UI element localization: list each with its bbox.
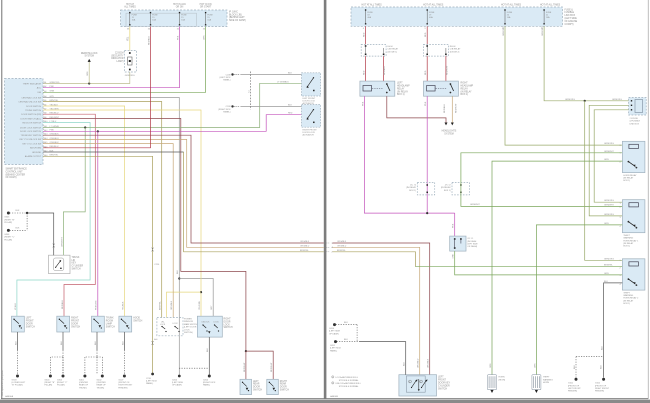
fuse F2: [150, 12, 151, 13]
svg-text:RH HI: RH HI: [450, 46, 456, 48]
svg-text:IGN: IGN: [37, 92, 41, 94]
svg-text:DOOR: DOOR: [280, 387, 287, 389]
svg-text:THEFT: THEFT: [543, 377, 550, 379]
svg-text:PANEL): PANEL): [330, 349, 338, 352]
svg-text:C/B RELAY: C/B RELAY: [388, 48, 399, 51]
fuse F2-1: [365, 9, 366, 10]
svg-text:LT GRN/BLK: LT GRN/BLK: [277, 81, 289, 83]
svg-text:GRN: GRN: [87, 71, 89, 76]
svg-text:BLK: BLK: [601, 364, 603, 369]
svg-text:OF ENGINE: OF ENGINE: [565, 21, 578, 23]
svg-text:LOCK: LOCK: [160, 324, 166, 326]
node junction r1 remote lock: [88, 82, 90, 84]
svg-text:SWITCH: SWITCH: [224, 327, 233, 329]
right front door lock actuator: [302, 105, 321, 128]
svg-text:SWITCH: SWITCH: [133, 321, 142, 323]
wire REDBLU d1b: [383, 56, 385, 81]
svg-text:GRN: GRN: [453, 253, 455, 258]
trunk lid key cylinder switch: [49, 255, 71, 273]
svg-text:BLK: BLK: [404, 361, 406, 366]
svg-text:BLOCK (JB): BLOCK (JB): [229, 14, 242, 16]
svg-text:YEL: YEL: [128, 36, 130, 41]
svg-text:THEFT INDICATOR: THEFT INDICATOR: [23, 82, 42, 85]
svg-text:LID: LID: [72, 260, 76, 262]
wire BRNYEL t3: [333, 252, 416, 267]
svg-text:LT BLU: LT BLU: [15, 303, 17, 310]
svg-text:UNLOCK: UNLOCK: [202, 321, 211, 323]
fuse F2-4: [543, 9, 544, 10]
svg-text:J/C #2: J/C #2: [445, 184, 452, 186]
svg-text:SYSTEM: SYSTEM: [444, 133, 454, 135]
svg-text:SWITCH: SWITCH: [71, 326, 80, 328]
svg-text:(IN RELAY: (IN RELAY: [397, 90, 409, 93]
wire LTGRN r11b: [63, 128, 85, 256]
ground G101 dashed branch: [576, 356, 604, 358]
svg-text:BOX 1): BOX 1): [623, 303, 630, 305]
svg-text:BOX 1): BOX 1): [444, 190, 451, 192]
svg-text:DOOR: DOOR: [224, 321, 231, 323]
wire BRNYEL r18: [43, 156, 153, 374]
hood switch: [119, 316, 132, 332]
theft warning horn relay 1: [622, 200, 645, 233]
svg-text:KEY: KEY: [72, 263, 77, 265]
svg-text:GRN/WHT: GRN/WHT: [604, 151, 615, 153]
svg-text:BRN/YEL: BRN/YEL: [604, 265, 614, 267]
svg-text:(RIGHT "C": (RIGHT "C": [4, 237, 15, 239]
svg-text:(IN DASH: (IN DASH: [467, 240, 477, 243]
svg-text:WARNING: WARNING: [623, 294, 633, 297]
svg-text:COMPT): COMPT): [565, 24, 574, 26]
svg-text:FRONT: FRONT: [438, 380, 447, 382]
svg-text:GRN/ORG: GRN/ORG: [604, 143, 614, 145]
svg-text:DOOR SWITCH (ALL): DOOR SWITCH (ALL): [21, 117, 42, 120]
svg-text:ORG/BLK: ORG/BLK: [171, 300, 173, 310]
svg-text:SWITCH: SWITCH: [26, 326, 35, 328]
svg-text:SWITCH: SWITCH: [438, 388, 447, 390]
svg-text:HOT IN ACC: HOT IN ACC: [173, 3, 186, 6]
fuse F1: [129, 12, 130, 13]
svg-text:(LEFT DOOR: (LEFT DOOR: [184, 327, 197, 329]
svg-text:REAR OF: REAR OF: [79, 384, 89, 387]
svg-text:(IN RELAY: (IN RELAY: [623, 299, 633, 302]
svg-text:LEFT: LEFT: [397, 83, 403, 85]
svg-text:1998 System Wiring Diagrams: 1998 System Wiring Diagrams: [1, 370, 4, 396]
svg-text:ORG/BLU: ORG/BLU: [418, 358, 420, 368]
svg-text:J/C #2: J/C #2: [410, 184, 417, 186]
svg-text:BLK: BLK: [602, 345, 604, 350]
svg-text:PANEL): PANEL): [223, 79, 231, 82]
svg-text:GRN: GRN: [534, 363, 536, 368]
wire PNK r12b: [97, 131, 99, 316]
svg-text:GRN: GRN: [204, 35, 206, 40]
svg-text:OF DASH): OF DASH): [329, 332, 339, 335]
svg-text:PNK: PNK: [177, 35, 179, 40]
svg-text:RED/WHT: RED/WHT: [244, 362, 246, 372]
wire RED f2: [426, 26, 428, 44]
svg-text:BLK: BLK: [122, 340, 124, 345]
svg-text:BOX 1): BOX 1): [409, 190, 416, 192]
svg-text:DOOR: DOOR: [26, 324, 33, 326]
svg-text:RED/WHT: RED/WHT: [456, 103, 458, 113]
svg-text:DOOR KEY: DOOR KEY: [438, 383, 451, 385]
svg-text:GRN/ORG: GRN/ORG: [604, 214, 614, 216]
svg-text:BOX 1): BOX 1): [623, 180, 630, 182]
svg-text:GROUND: GROUND: [32, 152, 42, 154]
page frame left edge: [1, 0, 2, 399]
svg-text:GRN/WHT: GRN/WHT: [61, 236, 63, 247]
svg-text:HORN RELAY 1: HORN RELAY 1: [623, 239, 639, 242]
fuse F3: [179, 12, 180, 13]
svg-text:LEFT: LEFT: [253, 381, 259, 383]
svg-text:TRUNK SWITCH: TRUNK SWITCH: [25, 110, 41, 112]
svg-text:(DIODE 2): (DIODE 2): [450, 51, 460, 53]
svg-text:SYSTEM: SYSTEM: [84, 56, 94, 58]
svg-text:STROKE & NORMAL: STROKE & NORMAL: [339, 379, 360, 382]
wire PNK r12: [43, 115, 302, 132]
svg-text:PNK: PNK: [362, 101, 364, 106]
svg-text:RED/BLU: RED/BLU: [148, 36, 150, 45]
svg-text:(IN RELAY: (IN RELAY: [623, 177, 633, 180]
wire GRNORG br: [585, 101, 623, 260]
svg-text:BLK: BLK: [207, 347, 209, 352]
svg-text:LEFT SIDE: LEFT SIDE: [467, 244, 478, 246]
fuse block IP junction: [121, 10, 228, 27]
svg-text:BLK: BLK: [288, 104, 293, 106]
wire GRY r4 branch: [179, 279, 213, 317]
svg-text:LAMP: LAMP: [106, 323, 113, 326]
svg-text:C/B RELAY: C/B RELAY: [450, 48, 461, 51]
svg-text:FUSE &: FUSE &: [565, 9, 574, 11]
svg-text:DOOR LOCK: DOOR LOCK: [303, 101, 316, 103]
svg-text:"B" PILLAR): "B" PILLAR): [12, 384, 23, 387]
svg-text:RED/WHT: RED/WHT: [446, 65, 448, 75]
fuse block engine compartment: [351, 7, 563, 26]
wire GRY c209: [234, 105, 302, 107]
svg-text:WINDOW: WINDOW: [184, 321, 193, 323]
svg-text:CONTROL UNIT: CONTROL UNIT: [6, 171, 24, 173]
svg-text:RIGHT FRONT: RIGHT FRONT: [303, 129, 318, 131]
svg-text:IP JUNC: IP JUNC: [229, 11, 238, 13]
wire BLK trunklid: [28, 213, 54, 255]
svg-text:GRN: GRN: [604, 273, 609, 275]
svg-text:LH HI: LH HI: [388, 46, 394, 48]
svg-text:FENDER): FENDER): [568, 391, 577, 393]
svg-text:BRN/YEL: BRN/YEL: [160, 300, 162, 310]
svg-text:OF DASH): OF DASH): [172, 384, 182, 387]
svg-text:HORN: HORN: [543, 382, 550, 384]
horn relay: [622, 141, 645, 172]
svg-text:LEFT FRONT: LEFT FRONT: [303, 98, 317, 100]
svg-text:(IN RELAY: (IN RELAY: [623, 242, 633, 245]
wire REDWHT d2b: [445, 56, 447, 81]
svg-text:(IN RELAY: (IN RELAY: [461, 90, 473, 93]
inline connector JC2b: [452, 182, 469, 195]
left front door switch: [12, 316, 25, 332]
svg-text:BLK: BLK: [177, 269, 179, 274]
svg-text:LEFT: LEFT: [438, 377, 444, 379]
svg-text:RED: RED: [425, 32, 427, 37]
svg-text:BOX 1): BOX 1): [397, 94, 405, 96]
wire PNK jc1: [454, 213, 456, 236]
svg-text:PANEL): PANEL): [203, 384, 211, 387]
wire GRN horn2: [536, 225, 622, 375]
wire ORGBLK r15: [43, 144, 173, 318]
svg-text:(BEHIND LEFT: (BEHIND LEFT: [229, 17, 245, 19]
svg-text:TRUNK): TRUNK): [79, 387, 87, 389]
svg-text:G306: G306: [4, 234, 10, 236]
svg-text:THEFT: THEFT: [623, 292, 630, 294]
svg-text:HEADLAMP: HEADLAMP: [397, 85, 410, 88]
svg-text:GRN/ORG: GRN/ORG: [604, 200, 614, 202]
svg-text:RIGHT: RIGHT: [71, 318, 79, 320]
svg-text:PNK: PNK: [453, 223, 455, 228]
wire YEL r6: [43, 106, 125, 316]
wire ORGBLK t1: [333, 243, 430, 375]
svg-text:PNK/GRN: PNK/GRN: [96, 300, 98, 310]
svg-text:C210: C210: [154, 264, 160, 266]
wire YEL r7 branch: [167, 292, 202, 317]
wire BLK boxs5: [208, 337, 210, 374]
svg-text:GRN/ORG: GRN/ORG: [565, 99, 575, 101]
horn: [488, 375, 497, 390]
right front door switch: [57, 316, 70, 332]
wire ORGBLU t2: [333, 247, 420, 374]
svg-text:BLK: BLK: [15, 340, 17, 345]
power window main switch dashed box (left door lock switch): [157, 318, 183, 336]
svg-text:HOT AT ALL TIMES: HOT AT ALL TIMES: [362, 3, 383, 6]
wire BRNYEL r5: [43, 102, 162, 318]
ground G305: [7, 212, 10, 215]
wire RED f1: [365, 26, 367, 44]
right rear door switch: [267, 379, 279, 394]
svg-text:1: 1: [409, 381, 410, 383]
svg-text:HORN RELAY: HORN RELAY: [623, 174, 637, 177]
svg-text:RED: RED: [364, 70, 366, 75]
svg-text:HOT AT ALL TIMES: HOT AT ALL TIMES: [540, 3, 561, 6]
svg-text:INDICATOR: INDICATOR: [111, 57, 124, 60]
left headlamp relay: [360, 81, 395, 96]
svg-text:DOOR LOCK: DOOR LOCK: [303, 132, 316, 134]
svg-text:LOCK=BETWEEN FULL: LOCK=BETWEEN FULL: [336, 377, 359, 379]
svg-text:CENTRAL UNLOCK SW: CENTRAL UNLOCK SW: [18, 100, 41, 103]
svg-text:PNK: PNK: [425, 101, 427, 106]
svg-text:BLK: BLK: [95, 340, 97, 345]
svg-text:(LEFT SIDE: (LEFT SIDE: [565, 18, 578, 20]
wire GRNORG f21: [544, 26, 629, 101]
wire YEL r7: [43, 110, 201, 316]
svg-text:HOT AT: HOT AT: [126, 3, 135, 6]
svg-text:SIDE OF DASH): SIDE OF DASH): [229, 19, 246, 22]
fuse F2-2: [427, 9, 428, 10]
ground dot: [83, 375, 86, 378]
svg-text:FENDER): FENDER): [595, 391, 604, 393]
diode unit 1: [361, 44, 386, 56]
svg-text:WARNING: WARNING: [543, 378, 553, 381]
svg-text:CYLINDER: CYLINDER: [72, 266, 84, 268]
ground G200 left side of dash: [178, 375, 181, 378]
svg-text:ROOM: ROOM: [106, 321, 113, 323]
wire REDWHT r9 right: [246, 351, 273, 379]
svg-text:POWER: POWER: [184, 319, 192, 321]
svg-text:SAT (FUSE): SAT (FUSE): [30, 147, 42, 150]
svg-text:LINK BOX: LINK BOX: [565, 15, 576, 17]
svg-text:BLK: BLK: [344, 339, 349, 341]
svg-text:BLK: BLK: [16, 210, 21, 212]
svg-text:GRN/WHT: GRN/WHT: [604, 204, 615, 206]
wire GRN/ORG r1: [43, 72, 130, 84]
svg-text:PILLAR): PILLAR): [57, 384, 65, 387]
BCM security indicator lamp: [125, 51, 137, 73]
ground G201 left kick panel: [334, 340, 337, 343]
svg-text:& FUSIBLE: & FUSIBLE: [630, 121, 641, 123]
svg-text:OR ON: OR ON: [176, 7, 184, 9]
svg-text:BRN/YEL: BRN/YEL: [300, 250, 310, 252]
wire PNK rl2: [426, 96, 428, 213]
svg-text:LAMP): LAMP): [116, 60, 123, 63]
wire RED d2a: [426, 56, 428, 81]
svg-text:ORG/BLU: ORG/BLU: [300, 245, 310, 247]
svg-text:2: 2: [420, 381, 421, 383]
trunk room lamp switch: [92, 316, 105, 332]
wire BLK drop: [123, 332, 125, 350]
svg-text:YEL/GRN: YEL/GRN: [199, 300, 201, 310]
svg-text:STROKE & NORMAL: STROKE & NORMAL: [339, 385, 360, 388]
wire GRN t3b: [416, 266, 623, 268]
svg-text:ORG/BLK: ORG/BLK: [428, 358, 430, 368]
wire GRN jc1out: [455, 251, 623, 275]
wire BLK drop: [17, 332, 19, 350]
page bottom borders: [1, 397, 326, 400]
right headlamp relay: [424, 81, 459, 96]
svg-text:REMOTE LOCK: REMOTE LOCK: [81, 53, 98, 55]
svg-text:DOOR SWITCH (RR): DOOR SWITCH (RR): [21, 114, 41, 116]
svg-text:2: 2: [332, 383, 333, 385]
svg-text:RED/BLU: RED/BLU: [384, 66, 386, 75]
svg-text:REAR: REAR: [253, 383, 260, 386]
svg-text:SWITCH: SWITCH: [106, 326, 115, 328]
svg-text:WARNING: WARNING: [623, 237, 633, 240]
svg-text:GRN: GRN: [604, 223, 609, 225]
wire GRN r3: [43, 27, 206, 93]
wire BLK drop: [62, 332, 64, 350]
svg-text:LOCK: LOCK: [214, 321, 220, 323]
svg-text:FENDER): FENDER): [118, 387, 127, 389]
diode unit 2: [424, 44, 449, 56]
svg-text:OF DASH): OF DASH): [467, 245, 477, 248]
svg-text:THEFT: THEFT: [623, 235, 630, 237]
svg-text:GRN: GRN: [604, 159, 609, 161]
wire LTGRN r11: [43, 83, 302, 127]
svg-text:KEY CYL UNLOCK SW: KEY CYL UNLOCK SW: [19, 139, 41, 141]
svg-text:ALL TIMES: ALL TIMES: [124, 6, 136, 9]
wire GRNORG f20: [505, 26, 622, 145]
svg-text:HORN: HORN: [499, 377, 506, 379]
svg-text:(RIGHT "B": (RIGHT "B": [4, 219, 15, 221]
ground G200 left side of dash: [333, 323, 336, 326]
svg-text:DOOR: DOOR: [71, 324, 78, 326]
svg-text:BLK: BLK: [574, 364, 576, 369]
svg-text:DOOR LOCK SWITCH: DOOR LOCK SWITCH: [20, 127, 42, 129]
svg-text:1: 1: [332, 377, 333, 379]
svg-text:PILLAR): PILLAR): [44, 384, 52, 387]
svg-text:SWITCH: SWITCH: [280, 390, 289, 392]
svg-text:FRONT: FRONT: [71, 321, 80, 323]
SECU smart entrance control unit box: [5, 79, 44, 165]
svg-text:REAR: REAR: [280, 383, 287, 386]
svg-text:OF DASH): OF DASH): [6, 176, 17, 179]
fuse F2-3: [504, 9, 505, 10]
svg-text:HOT AT ALL TIMES: HOT AT ALL TIMES: [423, 3, 444, 6]
wire BLK drop: [96, 332, 98, 350]
wire PNK rl1: [364, 96, 454, 213]
svg-text:G305: G305: [4, 217, 10, 219]
svg-text:BLK: BLK: [61, 340, 63, 345]
wire PNK r2: [43, 27, 180, 88]
svg-text:TRUNK KEY SWITCH: TRUNK KEY SWITCH: [21, 135, 42, 137]
svg-text:HOOD: HOOD: [133, 318, 140, 320]
svg-text:A1: A1: [44, 81, 46, 84]
inline connector line: [249, 72, 251, 110]
svg-text:ALARM OUTPUT: ALARM OUTPUT: [25, 155, 42, 158]
svg-text:RED/BLU: RED/BLU: [62, 300, 64, 309]
svg-text:MAIN SWITCH: MAIN SWITCH: [184, 323, 198, 326]
svg-text:C2 BCM: C2 BCM: [115, 52, 124, 54]
svg-text:CENTRAL LOCK SW: CENTRAL LOCK SW: [21, 96, 41, 99]
svg-text:RELAY: RELAY: [397, 87, 405, 90]
svg-text:RED: RED: [425, 70, 427, 75]
svg-text:RED: RED: [288, 113, 293, 115]
svg-text:#3 FUSE: #3 FUSE: [630, 118, 639, 120]
svg-text:SW DOOR SWITCH: SW DOOR SWITCH: [22, 122, 41, 124]
svg-text:PANEL): PANEL): [146, 382, 154, 385]
wire ORGBLK r13: [43, 135, 324, 243]
svg-text:SMART ENTRANCE: SMART ENTRANCE: [6, 168, 28, 171]
footnote: [332, 376, 334, 378]
svg-text:SWITCH: SWITCH: [72, 269, 81, 271]
svg-text:HEADLAMP: HEADLAMP: [461, 85, 474, 88]
svg-text:TRUNK: TRUNK: [72, 257, 80, 259]
fuse F4: [205, 12, 206, 13]
svg-text:GRN/ORG: GRN/ORG: [503, 26, 505, 36]
svg-text:BOX 1): BOX 1): [623, 246, 630, 248]
svg-text:LINK BOX: LINK BOX: [630, 123, 640, 125]
svg-text:OR START: OR START: [200, 6, 212, 9]
svg-text:GRN: GRN: [490, 363, 492, 368]
left front door key cylinder switch: [399, 375, 437, 396]
wire BLK gnd: [604, 283, 623, 378]
svg-text:PILLAR): PILLAR): [4, 221, 12, 224]
wire TAN hl2: [451, 96, 453, 122]
svg-text:DOOR: DOOR: [253, 387, 260, 389]
svg-text:HAE06B: HAE06B: [330, 395, 339, 398]
wire GRY r4: [43, 98, 179, 377]
svg-text:BLK: BLK: [344, 322, 349, 324]
wire BLK r17: [43, 151, 184, 153]
svg-text:ACTUATOR: ACTUATOR: [303, 134, 315, 137]
svg-text:DOOR SWITCH: DOOR SWITCH: [26, 106, 42, 108]
svg-text:LOCK: LOCK: [173, 323, 179, 325]
svg-text:KEY CYL LOCK SW: KEY CYL LOCK SW: [22, 143, 41, 145]
svg-text:BLK: BLK: [16, 228, 21, 230]
number 3 fuse and fusible link box: [629, 98, 647, 116]
svg-text:RIGHT: RIGHT: [461, 83, 469, 85]
svg-text:RED: RED: [364, 32, 366, 37]
svg-text:ORG/BLK: ORG/BLK: [300, 241, 310, 243]
bottom gray strip: [0, 400, 650, 403]
ground dot: [123, 375, 126, 378]
ground G102: [602, 378, 605, 381]
svg-text:LEFT: LEFT: [26, 318, 32, 320]
